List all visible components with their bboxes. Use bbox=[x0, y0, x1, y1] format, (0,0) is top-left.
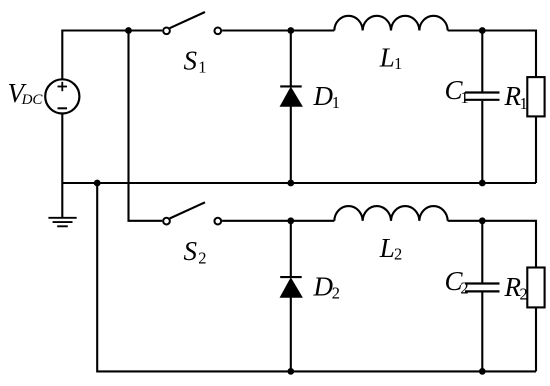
switch S2 bbox=[163, 202, 221, 224]
wire bbox=[62, 31, 162, 80]
wire bbox=[290, 297, 292, 371]
wire bbox=[481, 31, 483, 92]
inductor L1 bbox=[334, 16, 447, 31]
node junction mid rail left bbox=[94, 180, 101, 187]
label D2 bbox=[313, 272, 340, 303]
node junction C1 bottom bbox=[479, 180, 486, 187]
voltage source VDC bbox=[45, 79, 79, 113]
svg-text:1: 1 bbox=[460, 88, 468, 107]
svg-text:D: D bbox=[313, 81, 334, 111]
wire bbox=[535, 307, 537, 371]
node junction D2 top bbox=[287, 217, 294, 224]
svg-text:1: 1 bbox=[520, 94, 528, 113]
inductor L2 bbox=[334, 206, 447, 221]
resistor R1 bbox=[527, 77, 544, 116]
label C2 bbox=[445, 266, 469, 297]
node junction D1 bottom bbox=[287, 180, 294, 187]
ground bbox=[48, 218, 76, 227]
label C1 bbox=[445, 75, 469, 107]
diode D2 bbox=[280, 277, 302, 297]
svg-text:L: L bbox=[379, 233, 395, 263]
wire bbox=[535, 116, 537, 183]
node junction C2 bottom bbox=[479, 368, 486, 375]
label VDC bbox=[8, 78, 44, 108]
svg-text:2: 2 bbox=[198, 248, 206, 267]
node junction D2 bottom bbox=[287, 368, 294, 375]
wire bbox=[481, 221, 483, 283]
svg-text:1: 1 bbox=[394, 54, 402, 73]
svg-text:2: 2 bbox=[460, 278, 468, 297]
switch S1 bbox=[163, 12, 221, 34]
svg-text:S: S bbox=[184, 46, 198, 76]
svg-text:1: 1 bbox=[198, 58, 206, 77]
svg-text:S: S bbox=[184, 236, 198, 266]
wire bbox=[222, 29, 334, 31]
wire bbox=[97, 183, 536, 371]
wire bbox=[290, 31, 292, 87]
svg-text:2: 2 bbox=[394, 245, 402, 264]
wire bbox=[290, 221, 292, 277]
wire bbox=[62, 182, 536, 184]
node junction top S2 tap bbox=[125, 27, 132, 34]
capacitor C1 bbox=[465, 93, 500, 100]
svg-text:D: D bbox=[313, 272, 334, 302]
label L2 bbox=[379, 233, 402, 264]
wire bbox=[448, 31, 536, 78]
svg-text:2: 2 bbox=[332, 284, 340, 303]
wire bbox=[129, 31, 163, 221]
svg-text:L: L bbox=[379, 43, 395, 73]
wire bbox=[222, 220, 334, 222]
label S1 bbox=[184, 46, 207, 77]
label S2 bbox=[184, 236, 207, 267]
wire bbox=[290, 106, 292, 183]
wire bbox=[448, 221, 536, 268]
node junction C2 top bbox=[479, 217, 486, 224]
node junction D1 top bbox=[287, 27, 294, 34]
label R2 bbox=[504, 272, 528, 304]
diode D1 bbox=[280, 86, 302, 106]
svg-text:DC: DC bbox=[21, 92, 44, 108]
svg-text:1: 1 bbox=[332, 93, 340, 112]
svg-text:2: 2 bbox=[520, 285, 528, 304]
wire bbox=[61, 114, 63, 218]
label D1 bbox=[313, 81, 340, 112]
capacitor C2 bbox=[465, 284, 500, 292]
wire bbox=[481, 101, 483, 183]
wire bbox=[481, 293, 483, 372]
label R1 bbox=[504, 81, 528, 113]
resistor R2 bbox=[527, 268, 544, 308]
node junction C1 top bbox=[479, 27, 486, 34]
label L1 bbox=[379, 43, 402, 74]
